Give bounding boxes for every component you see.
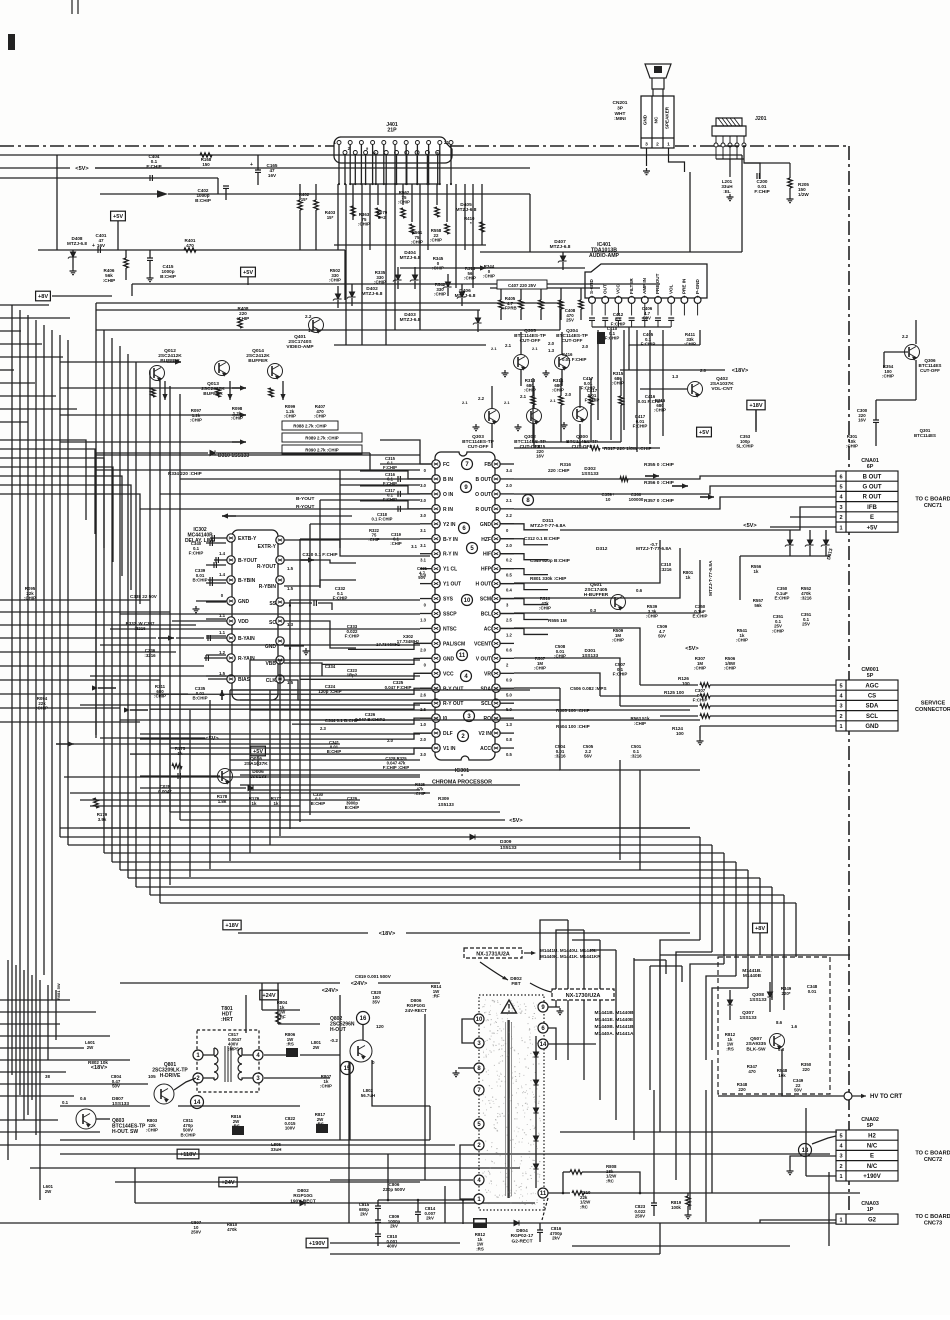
wire	[240, 774, 420, 776]
transistor Q402 2SA1037K VOL-CNT	[688, 382, 703, 397]
svg-text:S-GND: S-GND	[589, 279, 594, 294]
module label NX-1730/U2A	[552, 989, 614, 1000]
svg-text:SC: SC	[269, 620, 276, 626]
svg-text:33uH: 33uH	[271, 1147, 282, 1152]
ground	[787, 196, 794, 203]
svg-text:MTZJ-6.8: MTZJ-6.8	[456, 207, 477, 213]
wire	[579, 386, 581, 408]
wire drop2	[615, 950, 617, 1120]
wire	[72, 257, 74, 268]
wire	[620, 705, 698, 707]
svg-text:RGP10G: RGP10G	[293, 1193, 313, 1199]
wire	[572, 1245, 790, 1247]
resistor R403	[314, 200, 319, 210]
pin number 5	[474, 1119, 484, 1129]
IC302 pin B-YBIN	[227, 576, 235, 584]
svg-text:1/2W: 1/2W	[798, 192, 809, 197]
svg-text::CHIP: :CHIP	[882, 374, 894, 379]
pin number 7	[462, 459, 473, 470]
wire	[562, 262, 564, 270]
wire pin stub	[420, 747, 432, 749]
transistor Q802	[350, 1040, 372, 1062]
svg-text:+18V: +18V	[749, 403, 762, 409]
wire	[729, 1006, 731, 1020]
wire J401 pin	[360, 145, 362, 185]
wire HV	[782, 1049, 844, 1096]
pin number 1	[193, 1050, 203, 1060]
svg-text:R316: R316	[560, 462, 571, 467]
wire	[462, 1200, 464, 1224]
wire G2 line	[0, 1222, 836, 1224]
svg-text:CS: CS	[868, 694, 876, 700]
zener diode MTZJ-6.8	[473, 318, 482, 325]
wire	[339, 470, 341, 548]
wire	[96, 452, 208, 454]
wire	[414, 281, 416, 289]
svg-text:V1 IN: V1 IN	[443, 746, 456, 752]
zener diode	[821, 540, 830, 547]
wire	[582, 1172, 640, 1193]
pin number 2	[458, 731, 469, 742]
transistor Q013 2SC2412K BUFFER	[215, 361, 230, 376]
svg-text:10: 10	[464, 598, 471, 604]
wire	[176, 637, 204, 639]
svg-text:<18V>: <18V>	[379, 931, 396, 937]
capacitor C31x	[398, 491, 400, 497]
wire drop2	[599, 940, 601, 1100]
svg-text:3: 3	[839, 704, 842, 710]
svg-text:6P: 6P	[867, 464, 874, 470]
svg-text::CHIP: :CHIP	[724, 666, 736, 671]
svg-text:BTC114ES: BTC114ES	[914, 433, 936, 438]
wire	[350, 183, 438, 185]
wire	[397, 267, 399, 275]
wire	[562, 1172, 564, 1193]
svg-text:TO C BOARD: TO C BOARD	[915, 1151, 950, 1157]
svg-text:CN201: CN201	[613, 100, 628, 106]
wire	[548, 1192, 570, 1194]
svg-text:8: 8	[684, 295, 686, 299]
wire	[337, 286, 339, 294]
wire	[209, 700, 211, 869]
svg-text:0.047 F:CHIP: 0.047 F:CHIP	[385, 685, 412, 690]
svg-text:R IN: R IN	[443, 507, 453, 513]
wire ic302	[206, 618, 226, 620]
wire	[458, 1067, 474, 1069]
wire	[249, 660, 251, 853]
wire	[377, 1209, 379, 1220]
wire	[351, 284, 353, 292]
svg-text:R-Y IN: R-Y IN	[443, 552, 458, 558]
svg-text:+5V: +5V	[243, 270, 253, 276]
svg-text:1.2: 1.2	[506, 632, 512, 637]
wire	[500, 539, 548, 545]
IC301 pin left PAL/SCM	[432, 639, 440, 647]
transistor Q507	[770, 1034, 785, 1049]
wire	[168, 193, 530, 195]
wire fan	[385, 184, 387, 345]
wire	[711, 1060, 713, 1193]
diode	[767, 992, 772, 997]
svg-text::CHIP: :CHIP	[654, 408, 666, 413]
wire	[120, 719, 420, 721]
wire fan	[361, 184, 363, 345]
svg-text:VOL: VOL	[668, 284, 673, 294]
wire bus	[136, 886, 772, 888]
wire vertical bus	[127, 354, 129, 878]
svg-text:100000: 100000	[629, 497, 644, 502]
wire fan	[411, 184, 413, 222]
wire	[687, 1193, 689, 1196]
svg-text:56V: 56V	[584, 754, 592, 759]
svg-text:50V: 50V	[643, 316, 651, 321]
wire drop	[711, 845, 713, 952]
resistor	[172, 764, 182, 769]
wire left stub	[0, 599, 150, 601]
wire	[262, 1009, 300, 1011]
wire	[284, 602, 312, 604]
svg-text:M1441U. M1440U. M1440L: M1441U. M1440U. M1440L	[540, 948, 597, 953]
wire left stub	[0, 1011, 96, 1013]
svg-text:MTZJ-T-77-6.8A: MTZJ-T-77-6.8A	[708, 560, 714, 596]
wire	[559, 300, 561, 330]
capacitor	[216, 557, 218, 563]
wire	[95, 303, 97, 453]
svg-text:G2-RECT: G2-RECT	[511, 1238, 532, 1244]
wire IC401 drop	[623, 330, 625, 430]
wire pin stub	[420, 508, 432, 510]
wire	[875, 400, 877, 420]
svg-text:+24V: +24V	[221, 1180, 234, 1186]
resistor	[94, 798, 99, 808]
svg-text:1: 1	[839, 525, 842, 531]
zener diode MTZJ-6.8	[333, 294, 342, 301]
svg-text::CHIP: :CHIP	[612, 381, 624, 386]
wire	[289, 600, 291, 829]
zener diode	[68, 252, 77, 259]
wire	[560, 378, 562, 396]
svg-text::RC: :RC	[580, 1204, 589, 1209]
IC302 pin GND	[276, 637, 284, 645]
wire	[514, 447, 588, 449]
capacitor	[589, 318, 595, 320]
IC401 pin 1 S-GND	[589, 297, 596, 304]
capacitor	[208, 635, 210, 641]
svg-text:H2: H2	[868, 1133, 876, 1139]
svg-text:<5V>: <5V>	[75, 166, 89, 172]
wire	[135, 1202, 535, 1204]
wire left stub	[0, 1059, 130, 1061]
wire	[377, 1200, 379, 1206]
wire R OUT	[514, 497, 836, 509]
svg-text:2: 2	[839, 1164, 842, 1170]
IC301 pin left B IN	[432, 475, 440, 483]
wire	[264, 1077, 330, 1079]
svg-text:2.0: 2.0	[506, 543, 512, 548]
wire fan	[436, 184, 438, 205]
diode	[533, 1052, 538, 1057]
svg-text:B:CHIP: B:CHIP	[192, 696, 207, 701]
svg-text:2.0: 2.0	[420, 737, 426, 742]
wire ic302	[206, 582, 226, 584]
wire	[334, 244, 486, 246]
wire	[825, 530, 827, 540]
IC401 pin 5 AMP IN	[641, 297, 648, 304]
IC301 pin left R-Y IN	[432, 550, 440, 558]
svg-text:D312: D312	[596, 546, 608, 552]
svg-text:38: 38	[45, 1074, 50, 1079]
svg-text::3216: :3216	[800, 596, 812, 601]
wire +5V	[770, 526, 836, 528]
wire	[634, 959, 666, 961]
svg-text:1k: 1k	[754, 569, 759, 574]
svg-text:BIAS: BIAS	[238, 677, 251, 683]
svg-text:R OUT: R OUT	[475, 507, 491, 513]
wire fan	[481, 184, 483, 245]
wire	[149, 261, 151, 275]
wire fan	[345, 184, 347, 345]
pin number 6	[538, 1023, 548, 1033]
pin number 14	[538, 1039, 548, 1049]
wire vertical bus	[103, 330, 105, 853]
wire	[322, 658, 432, 664]
wire left stub	[0, 637, 156, 639]
svg-text::CHIP: :CHIP	[329, 278, 341, 283]
svg-text:50V: 50V	[658, 634, 666, 639]
wire	[242, 1048, 253, 1055]
wire staircase	[0, 449, 95, 534]
voltage label +5V	[241, 267, 256, 277]
svg-text:2.2: 2.2	[902, 334, 909, 339]
svg-text:M1440B: M1440B	[743, 973, 762, 979]
svg-text:VBB: VBB	[265, 661, 276, 667]
wire	[60, 1139, 430, 1141]
wire J401 pin	[375, 155, 377, 185]
svg-text:F:CHIP: F:CHIP	[754, 189, 769, 194]
wire	[70, 792, 430, 794]
svg-text:R355 0 :CHIP: R355 0 :CHIP	[644, 462, 675, 468]
wire bus	[68, 844, 712, 846]
svg-text:56k: 56k	[754, 603, 762, 608]
wire drop2	[567, 920, 569, 1060]
wire	[160, 493, 420, 495]
diode	[533, 1164, 538, 1169]
wire pin stub	[500, 657, 514, 659]
svg-text:2SA9335: 2SA9335	[746, 1041, 766, 1047]
wire	[279, 660, 281, 836]
wire	[560, 405, 562, 442]
svg-text:G2: G2	[868, 1217, 877, 1223]
svg-text:R504 100 :CHIP: R504 100 :CHIP	[556, 724, 590, 729]
wire drop2	[681, 966, 683, 982]
wire fan	[419, 184, 421, 330]
svg-text:F:CHIP: F:CHIP	[383, 497, 397, 502]
svg-text:1SS133: 1SS133	[582, 653, 599, 658]
svg-text:HZF: HZF	[481, 537, 491, 543]
wire	[640, 684, 698, 686]
signal arrow	[157, 190, 168, 198]
svg-text::CHIP: :CHIP	[524, 388, 536, 393]
svg-text::CHIP: :CHIP	[612, 638, 624, 643]
wire B OUT	[514, 476, 836, 479]
svg-text:1k: 1k	[252, 801, 257, 806]
svg-text:R357 0 :CHIP: R357 0 :CHIP	[644, 498, 675, 504]
wire R-Y	[284, 540, 430, 556]
wire	[96, 329, 560, 331]
svg-text:R356 0 :CHIP: R356 0 :CHIP	[644, 480, 675, 486]
wire	[590, 949, 616, 951]
wire fan	[472, 184, 474, 288]
diode	[727, 1000, 732, 1005]
svg-text:<5V>: <5V>	[743, 523, 757, 529]
wire SDA	[514, 658, 620, 706]
wire drop2	[583, 930, 585, 1080]
svg-text:B OUT: B OUT	[475, 477, 491, 483]
wire	[620, 369, 725, 371]
svg-text:+118V: +118V	[180, 1152, 196, 1158]
svg-text:M1441B. M1440B: M1441B. M1440B	[595, 1010, 634, 1016]
svg-text:220p 500V: 220p 500V	[383, 1187, 406, 1192]
svg-text:0.9: 0.9	[420, 573, 426, 578]
wire	[370, 469, 420, 471]
svg-text::CHIP: :CHIP	[320, 1084, 332, 1089]
svg-text:SERVICE: SERVICE	[921, 701, 946, 707]
wire ic302	[206, 635, 226, 637]
svg-text:25V: 25V	[802, 622, 810, 627]
wire	[769, 982, 771, 992]
svg-text:R317 220 1/8W :CHIP: R317 220 1/8W :CHIP	[604, 446, 653, 452]
svg-text::EL: :EL	[723, 189, 731, 194]
wire	[160, 688, 432, 694]
wire	[461, 284, 463, 292]
svg-text:1.1: 1.1	[219, 630, 226, 635]
wire bus	[120, 869, 748, 871]
wire	[400, 267, 470, 269]
capacitor	[602, 318, 608, 320]
svg-text::CHIP: :CHIP	[772, 628, 784, 633]
wire	[180, 478, 420, 480]
wire bus	[150, 894, 784, 896]
svg-text:FILTER: FILTER	[629, 278, 634, 294]
svg-text::CHIP: :CHIP	[534, 666, 546, 671]
wire	[561, 332, 563, 354]
ground	[147, 275, 154, 282]
resistor	[276, 1012, 281, 1024]
wire J201 to below	[716, 147, 760, 179]
svg-text:BUFFER: BUFFER	[160, 358, 180, 364]
svg-text:D309: D309	[500, 839, 512, 845]
voltage label +8V	[36, 291, 51, 301]
wire G OUT	[514, 486, 836, 494]
IC301 pin left V1 IN	[432, 744, 440, 752]
svg-text:16V: 16V	[268, 173, 277, 178]
svg-text:14: 14	[540, 1042, 547, 1048]
resistor R812 block	[473, 1218, 487, 1228]
wire	[217, 178, 219, 194]
svg-text:5: 5	[644, 295, 646, 299]
voltage label +24V	[260, 990, 278, 1000]
svg-text:GND: GND	[480, 522, 492, 528]
svg-text::RS: :RS	[726, 1046, 734, 1051]
svg-text::CHIP: :CHIP	[314, 414, 326, 419]
wire IC401 drop	[662, 330, 664, 436]
wire fan	[352, 184, 354, 220]
signal arrow	[98, 687, 116, 689]
wire left stub	[0, 1083, 148, 1085]
wire left stub	[0, 317, 70, 319]
wire	[257, 155, 259, 170]
resistor	[499, 300, 504, 309]
capacitor	[615, 318, 621, 320]
wire pin stub	[500, 642, 514, 644]
wire	[189, 710, 191, 877]
svg-text:2kV: 2kV	[360, 1212, 368, 1217]
IC301 pin left O IN	[432, 490, 440, 498]
svg-text:-0.2: -0.2	[330, 1038, 338, 1043]
svg-text::RF: :RF	[432, 994, 440, 999]
wire	[539, 1223, 541, 1230]
wire	[351, 298, 353, 306]
svg-text:E:CHIP: E:CHIP	[775, 596, 790, 601]
wire	[653, 1090, 655, 1193]
svg-text:R-YOUT: R-YOUT	[257, 564, 276, 570]
wire	[548, 1028, 556, 1060]
wire	[284, 645, 304, 647]
strip speckle	[482, 1000, 541, 1205]
wire	[590, 405, 592, 442]
signal arrow	[672, 485, 688, 487]
svg-text:B:CHIP: B:CHIP	[180, 1132, 195, 1137]
svg-text:O OUT: O OUT	[475, 492, 491, 498]
svg-text:1k: 1k	[274, 801, 279, 806]
IC301 pin left R IN	[432, 505, 440, 513]
wire fan	[402, 184, 404, 205]
wire J401 pin	[426, 155, 428, 185]
svg-text:1S5133: 1S5133	[500, 845, 517, 851]
wire	[236, 515, 352, 517]
svg-text::3216: :3216	[660, 567, 672, 572]
svg-text:+5V: +5V	[113, 214, 123, 220]
wire	[500, 554, 548, 560]
resistor fan	[376, 208, 381, 218]
wire vertical bus	[59, 335, 61, 837]
resistor	[686, 1196, 691, 1206]
svg-text:21P: 21P	[387, 128, 397, 134]
svg-text:B-Y IN: B-Y IN	[443, 537, 458, 543]
wire left stub	[0, 651, 176, 653]
svg-text:15*: 15*	[327, 215, 334, 220]
wire	[140, 733, 420, 735]
wire	[64, 776, 420, 778]
svg-text:5P: 5P	[867, 1123, 874, 1129]
diode	[248, 785, 253, 790]
wire	[602, 447, 660, 449]
pin number 3	[464, 711, 475, 722]
diode	[533, 1080, 538, 1085]
wire	[290, 599, 420, 601]
svg-text:GND: GND	[238, 599, 250, 605]
svg-text:3.1: 3.1	[420, 543, 426, 548]
wire fan	[464, 184, 466, 250]
wire	[269, 690, 271, 845]
signal arrow	[221, 690, 223, 700]
wire J401 pin	[338, 145, 340, 185]
wire	[710, 695, 836, 697]
svg-text:15*: 15*	[301, 197, 308, 202]
wire	[560, 688, 700, 770]
module label NX-1731/U2A	[464, 948, 522, 958]
IC302 pin R-YAIN	[227, 654, 235, 662]
